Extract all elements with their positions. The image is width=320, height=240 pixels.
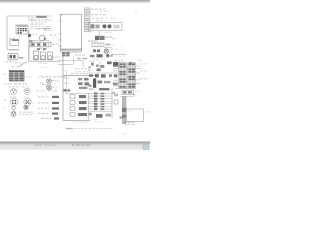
label under solenoids — [39, 63, 42, 64]
components beside T2 — [89, 81, 118, 87]
wire — [29, 40, 51, 42]
page number text — [95, 121, 98, 122]
label B1 — [55, 80, 56, 81]
wire — [88, 72, 118, 74]
text rows right of enclosure — [71, 68, 89, 74]
note text beside J7 — [19, 112, 33, 115]
wire riser node A — [28, 30, 30, 61]
wire bus lower-left — [29, 60, 61, 62]
labels under J1 J2 — [10, 97, 31, 98]
junction star — [129, 62, 132, 66]
label K2 value — [11, 57, 23, 67]
fuse row — [89, 74, 117, 78]
figure caption — [66, 128, 113, 129]
cable shield band — [122, 96, 126, 124]
legend row 3 — [38, 107, 59, 109]
label node A — [6, 61, 8, 62]
faint smudge — [120, 44, 126, 56]
wire — [115, 88, 134, 90]
wire — [120, 96, 134, 98]
wire bus mid — [63, 74, 95, 76]
left margin label 2 — [4, 107, 6, 108]
text above connectors — [4, 86, 28, 87]
marks row P1 — [77, 58, 87, 60]
scattered label 7 — [135, 91, 137, 92]
wire — [58, 57, 73, 64]
card slot row 3 — [70, 107, 87, 110]
wire dashed — [18, 30, 20, 40]
junction node B — [29, 40, 32, 42]
card slot row 2 — [70, 101, 87, 104]
wire — [104, 46, 112, 48]
text row below table — [5, 83, 28, 84]
wire — [50, 56, 61, 58]
coil wire stubs — [37, 48, 46, 50]
transformer T2 winding bar — [93, 78, 96, 87]
solenoid L3 — [48, 52, 53, 60]
terminal box outline — [126, 109, 143, 122]
scattered label 9 — [40, 66, 42, 69]
wire — [28, 44, 30, 61]
label right of box — [145, 111, 147, 112]
text right of table — [26, 76, 28, 77]
pin labels left of enclosure — [58, 15, 63, 47]
terminal box label — [128, 110, 130, 111]
wire — [65, 93, 90, 95]
wire stub pair — [133, 93, 134, 96]
left margin label — [4, 100, 6, 101]
wire riser right — [111, 88, 113, 118]
wire — [88, 40, 98, 42]
junction cluster — [90, 54, 113, 58]
resize grip — [143, 145, 149, 150]
control box — [122, 90, 134, 94]
leader line node A — [18, 62, 27, 68]
relay K1 — [16, 25, 28, 34]
tiny mark right margin — [135, 12, 137, 13]
scattered label 2 — [53, 37, 54, 38]
scattered label 5 — [105, 32, 108, 33]
motor M2 — [104, 49, 108, 53]
contact column A — [94, 93, 97, 111]
text block top right — [91, 9, 116, 22]
ladder wires — [88, 93, 112, 111]
legend tick marks — [30, 103, 34, 115]
text rows left column — [31, 24, 52, 30]
fan motor B2 — [47, 85, 52, 90]
text row P1 — [75, 54, 77, 55]
terminal strip TS1 — [119, 63, 126, 89]
label T1 — [106, 36, 109, 37]
connector J6 — [24, 105, 28, 109]
card slot row 1 — [70, 95, 86, 98]
table side label — [4, 74, 6, 75]
connector stack P1 — [62, 52, 70, 56]
connector cluster lower — [64, 89, 71, 91]
band dark segments — [122, 108, 126, 118]
text rows center top — [37, 28, 53, 31]
text above terminal field — [114, 60, 142, 61]
text dashes upper right — [112, 54, 114, 55]
pin labels right of strips — [136, 65, 139, 80]
pin labels left of strips — [113, 65, 118, 86]
contact strip SW1 — [30, 42, 51, 47]
solenoid L1 — [34, 51, 39, 60]
text marks mid right — [112, 38, 116, 45]
connector J5 — [12, 106, 15, 109]
marks near control box — [113, 92, 123, 119]
legend row 1 — [38, 96, 59, 98]
terminal TB1 — [28, 34, 31, 37]
relay K2 — [8, 53, 18, 60]
legend row 2 — [38, 102, 59, 104]
border frame top extension — [36, 15, 52, 17]
stamp text block — [124, 122, 135, 125]
junction hatched strip — [61, 49, 82, 52]
scattered label 3 — [86, 31, 89, 32]
scattered label 6 — [118, 56, 121, 57]
label M1 — [50, 34, 53, 35]
aux box — [114, 100, 118, 104]
scattered label 8 — [90, 119, 92, 120]
dense cluster bottom — [89, 113, 112, 118]
breaker cluster CB1 — [91, 61, 118, 66]
small marks left — [88, 66, 91, 71]
dots mark — [123, 132, 125, 135]
wire riser inner — [66, 70, 68, 93]
text row center — [93, 59, 105, 60]
connector J2 — [24, 88, 30, 94]
terminal strip TS2 — [128, 63, 136, 89]
legend row 5 — [41, 117, 59, 119]
solenoid L2 — [41, 52, 46, 60]
sheet background — [0, 0, 150, 150]
text row fan section — [39, 76, 41, 77]
connector J3 — [10, 98, 17, 105]
enclosure box tall — [61, 14, 82, 50]
scattered label 4 — [89, 61, 91, 62]
text row right of cluster — [112, 54, 114, 55]
label SW1 — [39, 44, 58, 49]
pin marks right edge — [89, 96, 90, 115]
label left of fans — [40, 83, 42, 84]
top letterbox band — [0, 0, 150, 4]
note text top-left — [28, 17, 34, 20]
wire — [58, 61, 83, 69]
label S1 — [9, 38, 11, 39]
enclosure right edge — [88, 94, 90, 121]
status bar text — [35, 144, 91, 146]
wire — [9, 49, 18, 51]
component group center — [96, 61, 104, 72]
connector J1 — [11, 88, 17, 94]
border frame corner — [7, 16, 36, 50]
aux marks — [114, 94, 118, 97]
marks inside enclosure — [65, 77, 70, 84]
connector J4 — [24, 98, 31, 105]
terminal strip TB2 — [84, 8, 90, 32]
contact column B — [101, 93, 105, 110]
legend row 4 — [38, 113, 58, 115]
meter M1 — [39, 35, 45, 41]
relay bank header — [89, 88, 110, 90]
wire — [112, 83, 140, 85]
legend heading — [36, 90, 57, 91]
wire list table — [9, 71, 24, 81]
enclosure bottom edge — [63, 119, 90, 121]
contactor pair CR1 — [93, 49, 100, 52]
scattered label 1 — [31, 34, 34, 35]
bottom letterbox band — [0, 141, 150, 150]
lamp strip DS1 — [89, 23, 123, 31]
component row under bus — [78, 78, 89, 89]
card slot row 4 — [70, 113, 87, 116]
text row — [88, 41, 90, 42]
caption under enclosure — [73, 122, 75, 123]
enclosure left edge — [62, 52, 64, 120]
relay contact strip K3 — [92, 43, 111, 46]
net labels right margin — [140, 63, 148, 79]
fan motor B1 — [47, 79, 55, 84]
connector J7 — [11, 111, 16, 116]
label B2 — [53, 87, 55, 88]
heading title text — [30, 16, 52, 23]
transformer T1 — [95, 31, 105, 40]
text between fans — [42, 84, 44, 85]
wire — [113, 67, 142, 69]
label M2 — [111, 49, 113, 50]
switch S1 — [10, 39, 19, 45]
